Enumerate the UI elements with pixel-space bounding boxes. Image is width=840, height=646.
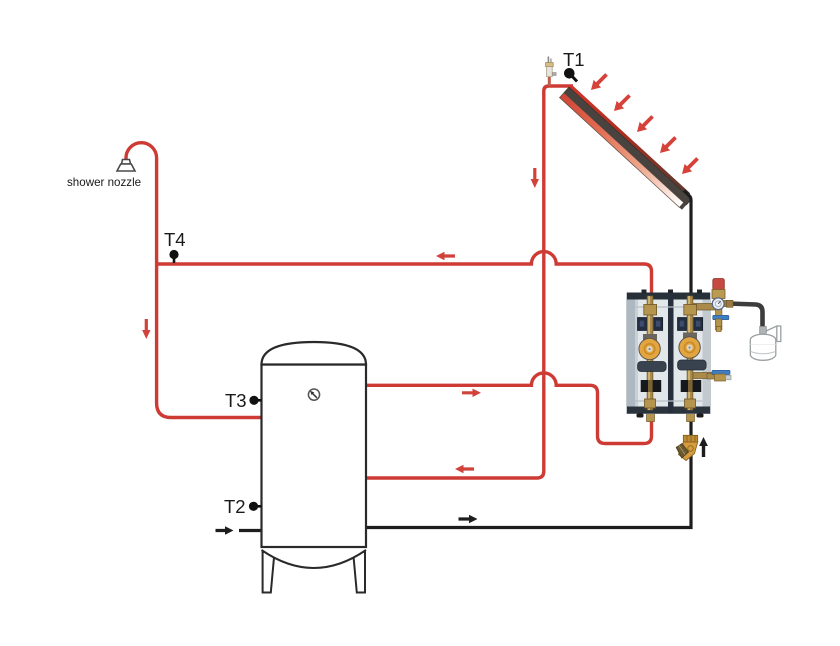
svg-text:T4: T4 xyxy=(164,229,186,250)
svg-text:shower nozzle: shower nozzle xyxy=(67,176,141,189)
svg-text:T1: T1 xyxy=(563,49,585,70)
svg-text:T2: T2 xyxy=(224,496,246,517)
svg-text:T3: T3 xyxy=(225,390,247,411)
